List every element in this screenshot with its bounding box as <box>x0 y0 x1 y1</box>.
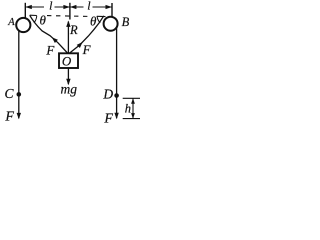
svg-text:F: F <box>4 110 14 125</box>
svg-text:C: C <box>4 86 14 101</box>
svg-text:B: B <box>122 15 130 29</box>
svg-text:θ: θ <box>40 13 47 28</box>
svg-text:A: A <box>7 17 15 28</box>
svg-text:F: F <box>82 42 92 57</box>
svg-text:F: F <box>45 43 55 58</box>
svg-text:mg: mg <box>61 82 78 97</box>
svg-text:θ: θ <box>90 13 97 28</box>
svg-text:D: D <box>102 87 113 102</box>
svg-text:h: h <box>125 102 131 116</box>
svg-text:O: O <box>62 53 72 68</box>
svg-text:R: R <box>69 23 78 37</box>
svg-text:F: F <box>103 112 113 127</box>
